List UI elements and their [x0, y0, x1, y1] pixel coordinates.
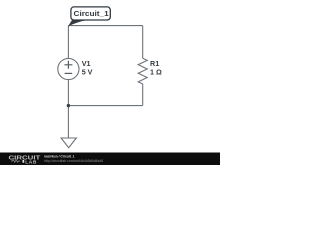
- junction node: [67, 104, 70, 107]
- node flag Circuit_1 tail: [68, 19, 89, 26]
- ground: [61, 138, 76, 148]
- svg-text:V1: V1: [82, 59, 91, 68]
- wire top (node between V1+ and R1): [68, 25, 142, 27]
- svg-text:LAB: LAB: [25, 159, 37, 165]
- wire right upper (R1 top lead): [142, 26, 144, 59]
- node flag Circuit_1 box: [71, 7, 110, 20]
- watermark bar: [0, 153, 220, 166]
- wire left upper (V1 positive lead): [67, 26, 69, 59]
- svg-text:R1: R1: [150, 59, 159, 68]
- CircuitLab logo: spark: [23, 160, 25, 163]
- svg-text:http://circuitlab.com/ce64b4d5: http://circuitlab.com/ce64b4d5b5d8dd8: [44, 158, 104, 163]
- voltage source V1: [58, 58, 79, 79]
- wire bottom: [68, 105, 142, 107]
- svg-text:Circuit_1: Circuit_1: [74, 9, 109, 18]
- wire left lower (V1 negative lead to ground): [67, 80, 69, 138]
- svg-text:1 Ω: 1 Ω: [150, 68, 162, 77]
- V1 minus sign: [65, 72, 73, 74]
- resistor R1: [138, 58, 147, 84]
- svg-text:5 V: 5 V: [82, 68, 93, 77]
- CircuitLab logo: zigzag: [11, 160, 20, 163]
- V1 plus sign: [64, 61, 72, 69]
- wire right lower (R1 bottom lead): [142, 84, 144, 106]
